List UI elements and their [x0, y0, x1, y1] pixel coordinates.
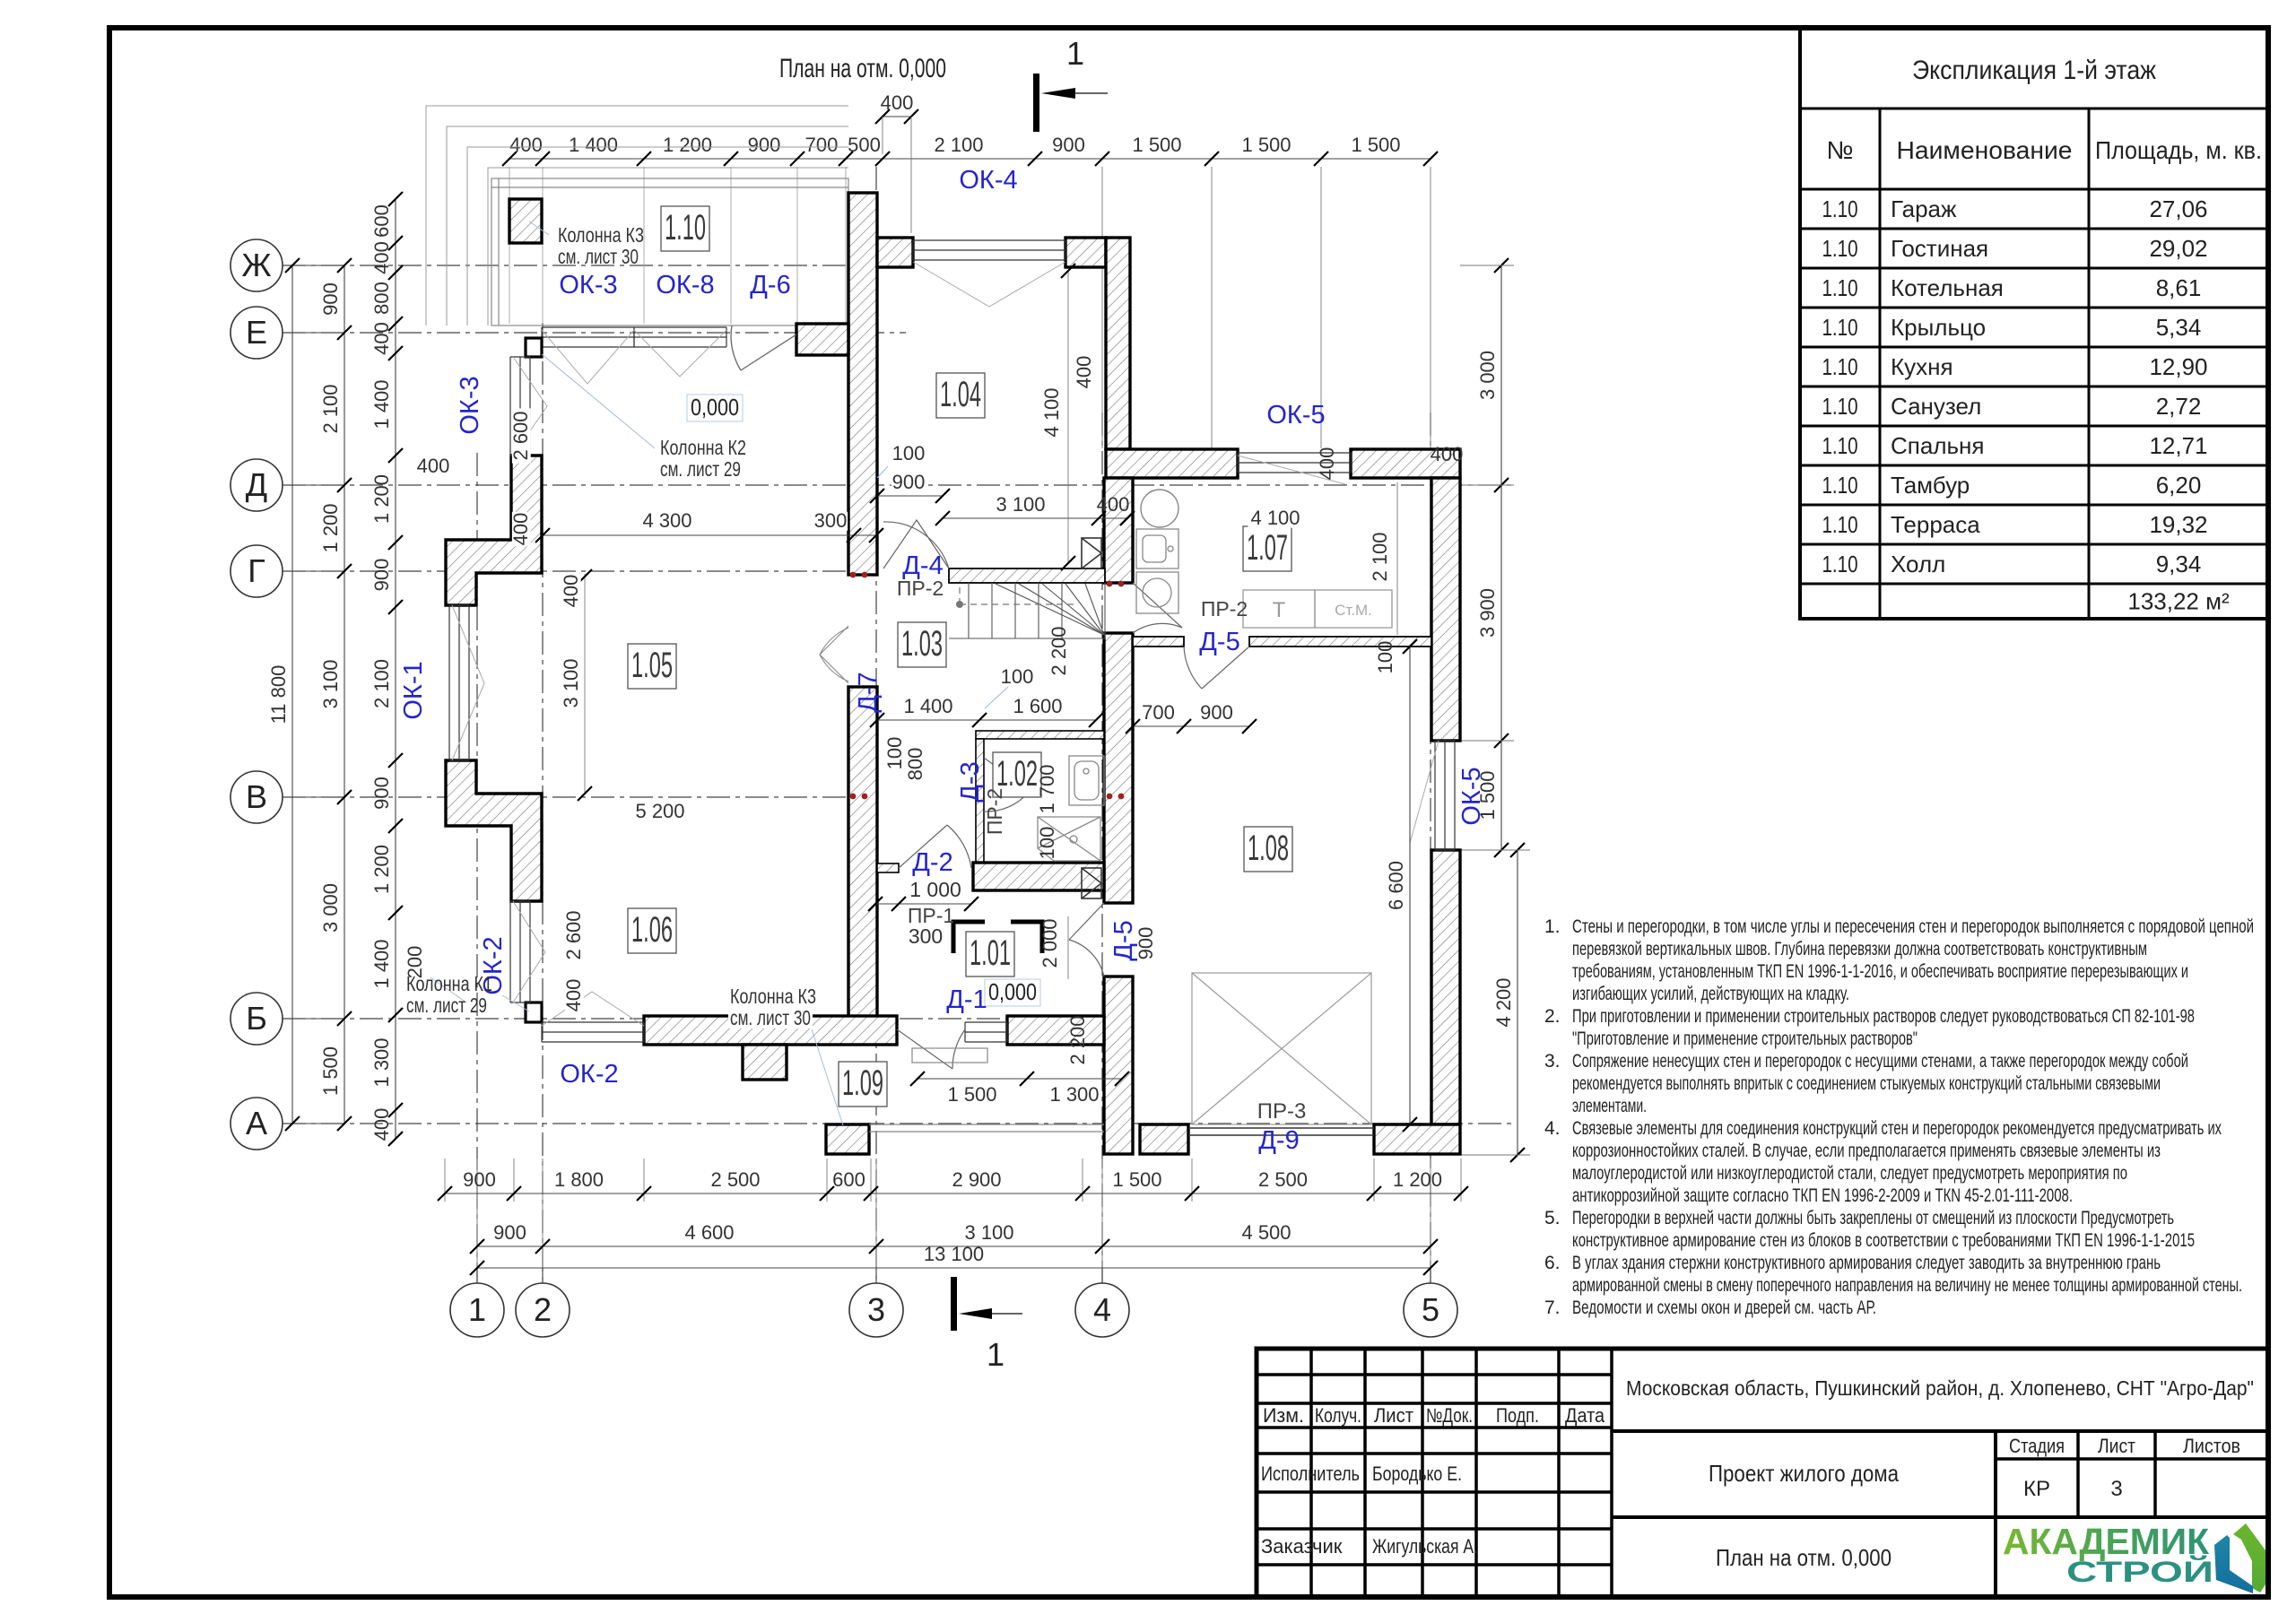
svg-text:1 500: 1 500: [319, 1046, 342, 1096]
svg-text:Лист: Лист: [1374, 1404, 1413, 1427]
svg-text:1.09: 1.09: [842, 1063, 883, 1103]
svg-text:1.10: 1.10: [1822, 511, 1858, 538]
svg-text:Колуч.: Колуч.: [1315, 1404, 1361, 1427]
window OK-8 band: [634, 327, 726, 347]
svg-text:Заказчик: Заказчик: [1261, 1535, 1343, 1558]
svg-text:элементами.: элементами.: [1572, 1096, 1647, 1116]
svg-text:1.06: 1.06: [631, 910, 673, 950]
dim kitchen door: [1133, 725, 1249, 727]
svg-text:11 800: 11 800: [267, 665, 290, 725]
svg-text:7.: 7.: [1544, 1298, 1561, 1318]
svg-text:0,000: 0,000: [988, 978, 1037, 1005]
svg-text:1 400: 1 400: [569, 134, 618, 156]
dim chain bottom axes: [477, 1245, 1431, 1247]
bath tub: [1069, 756, 1104, 805]
svg-text:2 900: 2 900: [952, 1168, 1001, 1191]
svg-text:1.10: 1.10: [1822, 551, 1858, 577]
svg-text:1 300: 1 300: [1049, 1083, 1099, 1106]
svg-text:1 400: 1 400: [903, 695, 952, 717]
svg-text:1.10: 1.10: [1822, 472, 1858, 499]
svg-text:Терраса: Терраса: [1891, 511, 1980, 538]
svg-text:900: 900: [370, 559, 393, 592]
svg-text:8,61: 8,61: [2156, 274, 2202, 301]
svg-text:Жигульская А.: Жигульская А.: [1372, 1535, 1478, 1558]
svg-text:2.: 2.: [1544, 1006, 1561, 1027]
interior dims 1.05: [584, 574, 586, 794]
window OK-5 top: [1238, 453, 1351, 473]
room 1.04: [936, 373, 985, 418]
svg-text:1.10: 1.10: [1822, 393, 1858, 420]
kitchen fridge circle: [1141, 490, 1178, 527]
svg-text:1 200: 1 200: [370, 845, 393, 894]
door D-5 garage leaf: [1069, 903, 1104, 976]
svg-text:А: А: [246, 1105, 267, 1141]
svg-text:1 200: 1 200: [663, 134, 712, 156]
window OK-1: [449, 605, 469, 760]
svg-text:см. лист 30: см. лист 30: [730, 1006, 811, 1029]
svg-text:3: 3: [867, 1291, 885, 1328]
svg-text:Листов: Листов: [2183, 1435, 2240, 1457]
garage door D-9 leaf: [1188, 1128, 1374, 1135]
svg-text:600: 600: [370, 204, 393, 238]
svg-text:Ж: Ж: [241, 247, 271, 283]
room 1.07 kitchen: [1243, 526, 1291, 571]
svg-text:900: 900: [1200, 701, 1233, 724]
svg-text:6 600: 6 600: [1385, 861, 1407, 910]
svg-text:Д-3: Д-3: [956, 761, 985, 802]
porch pier: [743, 1045, 787, 1080]
svg-text:1.10: 1.10: [665, 208, 706, 247]
svg-text:5: 5: [1422, 1291, 1439, 1328]
stairs treads: [949, 583, 1105, 638]
svg-text:ОК-3: ОК-3: [456, 376, 484, 434]
stair top partition: [949, 568, 1105, 583]
svg-text:1 500: 1 500: [1132, 134, 1181, 156]
svg-text:5 200: 5 200: [635, 800, 684, 822]
svg-text:Д-5: Д-5: [1199, 628, 1239, 656]
dim chain left axes: [344, 265, 345, 1124]
svg-text:12,71: 12,71: [2149, 432, 2207, 459]
door D-5 south leaf: [1184, 647, 1249, 689]
svg-text:Бородько Е.: Бородько Е.: [1372, 1462, 1462, 1485]
svg-text:Гараж: Гараж: [1891, 195, 1957, 222]
svg-text:4 200: 4 200: [1492, 977, 1515, 1027]
dim garage 6600: [1409, 647, 1411, 1124]
dim chain bottom fine: [445, 1193, 1461, 1194]
room 1.02 bath: [993, 752, 1041, 797]
wall E-axis stub: [796, 324, 848, 355]
window OK-2 south: [542, 1022, 644, 1042]
svg-text:900: 900: [370, 777, 393, 810]
svg-text:6,20: 6,20: [2156, 472, 2202, 499]
room 1.03 hall: [898, 622, 946, 667]
dim 3100 hall: [943, 517, 1127, 519]
svg-text:ОК-4: ОК-4: [959, 166, 1017, 195]
wall central spine lower: [848, 687, 877, 1020]
svg-text:1 500: 1 500: [1112, 1168, 1161, 1191]
svg-text:Спальня: Спальня: [1891, 432, 1984, 459]
svg-text:см. лист 30: см. лист 30: [558, 245, 639, 268]
svg-text:1.03: 1.03: [901, 624, 943, 664]
shower tray: [1038, 817, 1100, 861]
room 1.08 garage: [1244, 827, 1292, 872]
wall NE vertical: [1106, 238, 1130, 449]
bath partition west: [976, 739, 984, 863]
dim chain top: [509, 158, 1431, 160]
svg-text:1 700: 1 700: [1036, 764, 1058, 813]
svg-text:2 100: 2 100: [319, 384, 342, 433]
svg-text:1 500: 1 500: [1351, 134, 1400, 156]
svg-text:КР: КР: [2023, 1477, 2050, 1501]
svg-text:800: 800: [370, 282, 393, 315]
svg-text:1 400: 1 400: [370, 379, 393, 429]
svg-text:Наименование: Наименование: [1897, 136, 2073, 164]
svg-text:1: 1: [1066, 35, 1084, 72]
PR-1 niche brackets: [953, 922, 1042, 953]
svg-text:1.01: 1.01: [970, 933, 1011, 973]
room 1.05 living: [628, 644, 676, 689]
svg-text:1 300: 1 300: [370, 1037, 393, 1087]
column K3 bottom: [826, 1124, 869, 1154]
svg-text:ОК-3: ОК-3: [559, 271, 617, 299]
door D-3 arc: [984, 758, 1030, 811]
extension lines: [1101, 167, 1103, 448]
svg-text:Котельная: Котельная: [1891, 274, 2004, 301]
svg-text:300: 300: [814, 509, 848, 532]
svg-text:План на отм. 0,000: План на отм. 0,000: [779, 54, 946, 83]
window OK-3 west: [510, 357, 530, 456]
svg-text:100: 100: [1036, 827, 1058, 860]
stairs walk line: [960, 587, 1076, 604]
svg-text:3 100: 3 100: [319, 659, 342, 708]
svg-text:100: 100: [883, 737, 906, 770]
svg-text:коррозионностойких сталей. В с: коррозионностойких сталей. В случае, есл…: [1572, 1141, 2161, 1161]
svg-text:400: 400: [1097, 493, 1130, 516]
svg-text:Стены и перегородки, в том чис: Стены и перегородки, в том числе углы и …: [1572, 916, 2254, 937]
door D-2 leaf: [899, 825, 971, 868]
svg-text:План на отм. 0,000: План на отм. 0,000: [1716, 1544, 1892, 1571]
svg-text:3.: 3.: [1544, 1051, 1561, 1072]
svg-text:400: 400: [370, 322, 393, 355]
svg-text:2: 2: [534, 1291, 552, 1328]
svg-text:400: 400: [417, 455, 450, 477]
wall garage south-west part: [1140, 1124, 1188, 1154]
svg-text:2 200: 2 200: [1048, 626, 1070, 675]
wall kitchen west: [1104, 478, 1133, 583]
svg-text:Лист: Лист: [2098, 1435, 2135, 1457]
window at porch: [965, 1022, 1007, 1042]
dim chain bottom total: [477, 1267, 1431, 1269]
svg-text:13 100: 13 100: [924, 1243, 984, 1265]
column K3: [509, 199, 542, 243]
porch step: [912, 1048, 987, 1063]
svg-text:Д-7: Д-7: [854, 672, 883, 712]
window OK-5 right: [1435, 741, 1455, 850]
door D-7 double leaves: [820, 626, 848, 683]
svg-text:ОК-5: ОК-5: [1266, 401, 1325, 430]
svg-text:3 900: 3 900: [1476, 588, 1499, 638]
svg-text:ПР-2: ПР-2: [897, 577, 944, 600]
room 1.01: [966, 932, 1014, 976]
terrace roof overhang lines: [426, 106, 848, 325]
dim hall 1400-1600: [877, 719, 1096, 721]
svg-text:1: 1: [468, 1291, 486, 1328]
svg-text:400: 400: [1073, 356, 1095, 389]
svg-text:2,72: 2,72: [2156, 393, 2202, 420]
window OK-3 top band: [542, 327, 634, 347]
svg-text:Сопряжение ненесущих стен и пе: Сопряжение ненесущих стен и перегородок …: [1572, 1051, 2188, 1072]
svg-text:1 200: 1 200: [1393, 1168, 1442, 1191]
wall north near OK-4 right: [1065, 238, 1106, 267]
wall house south main: [644, 1016, 897, 1045]
svg-text:1.05: 1.05: [631, 646, 673, 685]
svg-text:900: 900: [892, 471, 926, 493]
svg-text:3 100: 3 100: [964, 1221, 1013, 1244]
svg-text:2 500: 2 500: [1258, 1168, 1308, 1191]
svg-text:1.10: 1.10: [1822, 432, 1858, 459]
title block: [1257, 1349, 2268, 1597]
dim 4300 line: [543, 534, 876, 536]
svg-text:1 200: 1 200: [319, 503, 342, 552]
wall house south right: [1007, 1016, 1104, 1045]
door D-1 leaf: [897, 1029, 965, 1069]
svg-text:1.08: 1.08: [1248, 829, 1289, 868]
axis circles bottom: [450, 1268, 504, 1337]
svg-text:900: 900: [1135, 927, 1157, 960]
svg-text:1 500: 1 500: [947, 1083, 996, 1106]
section mark 1 top: [1033, 35, 1108, 132]
svg-text:9,34: 9,34: [2156, 551, 2202, 577]
dim chain left fine: [395, 199, 396, 1139]
svg-text:Связевые элементы для соединен: Связевые элементы для соединения констру…: [1572, 1118, 2222, 1139]
dim 200: [406, 945, 425, 979]
svg-text:1 200: 1 200: [370, 474, 393, 524]
svg-text:№Док.: №Док.: [1426, 1404, 1473, 1427]
svg-text:400: 400: [509, 513, 532, 546]
svg-text:Подп.: Подп.: [1496, 1404, 1539, 1427]
svg-text:4 300: 4 300: [642, 509, 691, 532]
svg-text:6.: 6.: [1544, 1253, 1561, 1273]
wall kitchen north west part: [1106, 449, 1238, 478]
room 1.10 terrace: [661, 206, 709, 251]
svg-text:4.: 4.: [1544, 1118, 1561, 1139]
svg-text:2 200: 2 200: [1066, 1015, 1089, 1064]
svg-text:600: 600: [832, 1168, 865, 1191]
svg-text:5.: 5.: [1544, 1208, 1561, 1228]
dim chain right upper: [1500, 265, 1502, 850]
svg-text:Колонна К3: Колонна К3: [730, 985, 816, 1008]
svg-text:1.: 1.: [1544, 916, 1561, 937]
svg-text:2 100: 2 100: [370, 659, 393, 708]
svg-text:Г: Г: [248, 552, 265, 589]
svg-text:900: 900: [748, 134, 781, 156]
svg-text:ПР-2: ПР-2: [1201, 597, 1248, 621]
svg-text:Д-9: Д-9: [1258, 1126, 1299, 1155]
kitchen dims: [1248, 509, 1302, 528]
svg-text:Проект жилого дома: Проект жилого дома: [1709, 1460, 1899, 1487]
svg-text:ПР-3: ПР-3: [1257, 1099, 1307, 1124]
svg-text:Колонна К2: Колонна К2: [660, 436, 746, 459]
column K3 bottom note: [728, 987, 818, 1007]
porch 1.09 outline: [869, 1124, 1104, 1132]
svg-text:100: 100: [1374, 641, 1396, 674]
svg-text:Д: Д: [246, 466, 267, 503]
dim chain left total: [291, 265, 293, 1124]
svg-text:Т: Т: [1273, 598, 1286, 622]
svg-text:Д-2: Д-2: [912, 848, 952, 877]
svg-text:1.10: 1.10: [1822, 314, 1858, 341]
svg-text:В углах здания стержни констру: В углах здания стержни конструктивного а…: [1572, 1253, 2161, 1273]
svg-text:800: 800: [904, 748, 926, 781]
wall kitchen north east part: [1351, 449, 1460, 478]
svg-text:900: 900: [1052, 134, 1085, 156]
window OK-4 opening: [913, 262, 1065, 307]
svg-text:1.10: 1.10: [1822, 195, 1858, 222]
red dots fire marks: [850, 572, 1125, 800]
svg-text:1.04: 1.04: [940, 375, 981, 414]
svg-text:300: 300: [909, 924, 943, 948]
svg-text:1.10: 1.10: [1822, 353, 1858, 380]
svg-text:№: №: [1826, 136, 1853, 164]
svg-text:Колонна К1: Колонна К1: [406, 972, 492, 995]
svg-text:2 100: 2 100: [1369, 532, 1391, 581]
svg-text:конструктивное армирование сте: конструктивное армирование стен из блоко…: [1572, 1230, 2195, 1251]
svg-text:1.10: 1.10: [1822, 235, 1858, 262]
section mark 1 bottom: [951, 1277, 1022, 1373]
table explication: [1800, 28, 2268, 619]
kitchen sink: [1136, 529, 1178, 568]
svg-text:Колонна К3: Колонна К3: [558, 223, 644, 247]
svg-text:4: 4: [1093, 1291, 1111, 1328]
kitchen south thin wall: [1133, 637, 1184, 647]
svg-text:2 600: 2 600: [562, 910, 585, 959]
gas boxes on wall: [1082, 538, 1101, 568]
svg-text:2 000: 2 000: [1039, 918, 1061, 968]
svg-text:СТРОЙ: СТРОЙ: [2066, 1556, 2213, 1588]
door D-4 leaves: [883, 520, 949, 568]
partition stub west of door D-2: [877, 864, 899, 872]
axis lines horizontal: [283, 265, 910, 266]
wall bath south: [973, 863, 1104, 890]
svg-text:4 100: 4 100: [1250, 507, 1300, 529]
svg-text:1 400: 1 400: [370, 939, 393, 988]
svg-text:требованиям, установленным ТКП: требованиям, установленным ТКП EN 1996-1…: [1572, 961, 2188, 982]
wall garage south-east corner: [1374, 1124, 1460, 1154]
svg-text:2 500: 2 500: [710, 1168, 760, 1191]
svg-text:Площадь, м. кв.: Площадь, м. кв.: [2095, 136, 2262, 164]
svg-text:ОК-1: ОК-1: [399, 661, 428, 719]
svg-text:армированной смены в смену поп: армированной смены в смену поперечного н…: [1572, 1275, 2242, 1296]
svg-text:изгибающих усилий, действующих: изгибающих усилий, действующих на кладку…: [1572, 984, 1849, 1004]
svg-text:1.10: 1.10: [1822, 274, 1858, 301]
dim door D-2: [875, 903, 971, 905]
interior dims 1.06: [565, 907, 584, 962]
svg-text:Тамбур: Тамбур: [1891, 472, 1970, 499]
boiler boxes T / St.M: [1243, 590, 1392, 628]
svg-text:3 000: 3 000: [319, 883, 342, 933]
svg-text:3 100: 3 100: [996, 493, 1045, 516]
svg-text:1.07: 1.07: [1247, 528, 1288, 568]
wall garage west lower: [1104, 976, 1133, 1154]
svg-text:Исполнитель: Исполнитель: [1261, 1462, 1360, 1485]
svg-text:ОК-5: ОК-5: [1457, 767, 1486, 825]
svg-text:Холл: Холл: [1891, 551, 1945, 577]
svg-text:400: 400: [509, 134, 543, 156]
axis circles left: [230, 239, 344, 291]
window opening lines terrace: [542, 330, 726, 384]
wall west upper Z: [446, 456, 542, 605]
level mark 0,000 porch: [985, 978, 1040, 1006]
kitchen washer: [1136, 572, 1178, 613]
svg-text:Дата: Дата: [1565, 1404, 1605, 1427]
svg-text:При приготовлении и применении: При приготовлении и применении строитель…: [1572, 1006, 2195, 1027]
svg-text:400: 400: [1431, 443, 1464, 465]
svg-text:3 000: 3 000: [1476, 351, 1499, 400]
wall north near OK-4 left: [877, 238, 913, 267]
logo house icon blue band: [2214, 1535, 2253, 1593]
room 1.04 dims: [1067, 271, 1069, 563]
svg-text:4 600: 4 600: [684, 1221, 734, 1244]
axis lines vertical: [476, 453, 478, 1284]
svg-text:1 000: 1 000: [909, 878, 961, 901]
svg-text:400: 400: [1316, 447, 1338, 481]
dim porch: [918, 1078, 1122, 1080]
svg-text:700: 700: [1142, 701, 1175, 724]
svg-text:12,90: 12,90: [2149, 353, 2207, 380]
column K1: [526, 1002, 542, 1022]
dim chain right lower: [1517, 850, 1518, 1155]
door D-5 kitchen arc: [1133, 583, 1182, 633]
svg-text:400: 400: [562, 979, 585, 1012]
svg-text:Изм.: Изм.: [1263, 1404, 1304, 1427]
logo Akademik Stroy: [2003, 1521, 2266, 1593]
svg-text:"Приготовление и применение ст: "Приготовление и применение строительных…: [1572, 1028, 1918, 1049]
svg-text:1 500: 1 500: [1241, 134, 1291, 156]
svg-text:Экспликация 1-й этаж: Экспликация 1-й этаж: [1912, 56, 2156, 85]
terrace deck outline: [491, 178, 848, 325]
svg-text:1.02: 1.02: [996, 754, 1038, 794]
svg-text:5,34: 5,34: [2156, 314, 2202, 341]
svg-text:Стадия: Стадия: [2009, 1435, 2065, 1457]
logo house icon green band: [2233, 1523, 2266, 1593]
level mark 0,000 hall: [687, 394, 743, 421]
wall right upper: [1431, 478, 1460, 741]
svg-text:ПР-2: ПР-2: [983, 788, 1006, 835]
svg-text:900: 900: [319, 282, 342, 316]
svg-text:29,02: 29,02: [2149, 235, 2207, 262]
svg-text:4 100: 4 100: [1040, 387, 1063, 437]
svg-text:перевязкой вертикальных швов.: перевязкой вертикальных швов. Глубина пе…: [1572, 939, 2147, 959]
window OK-2 west: [510, 901, 530, 1002]
svg-text:Крыльцо: Крыльцо: [1891, 314, 1986, 341]
PR-3 marked zone: [1192, 973, 1371, 1124]
room 1.09 porch: [839, 1062, 887, 1107]
svg-text:400: 400: [881, 91, 914, 114]
svg-text:400: 400: [370, 241, 393, 274]
svg-text:антикоррозийной защите согласн: антикоррозийной защите согласно ТКП EN 1…: [1572, 1185, 2073, 1206]
svg-text:2 600: 2 600: [509, 411, 532, 460]
svg-text:0,000: 0,000: [691, 394, 739, 421]
svg-text:см. лист 29: см. лист 29: [660, 457, 741, 481]
svg-text:ОК-8: ОК-8: [656, 271, 714, 299]
svg-text:19,32: 19,32: [2149, 511, 2207, 538]
svg-text:Д-1: Д-1: [946, 985, 987, 1014]
svg-text:900: 900: [493, 1221, 526, 1244]
svg-text:Перегородки в верхней части до: Перегородки в верхней части должны быть …: [1572, 1208, 2174, 1228]
bath partition north: [976, 731, 1104, 739]
svg-text:Московская область, Пушкинский: Московская область, Пушкинский район, д.…: [1626, 1376, 2254, 1400]
svg-text:1 600: 1 600: [1013, 695, 1062, 717]
